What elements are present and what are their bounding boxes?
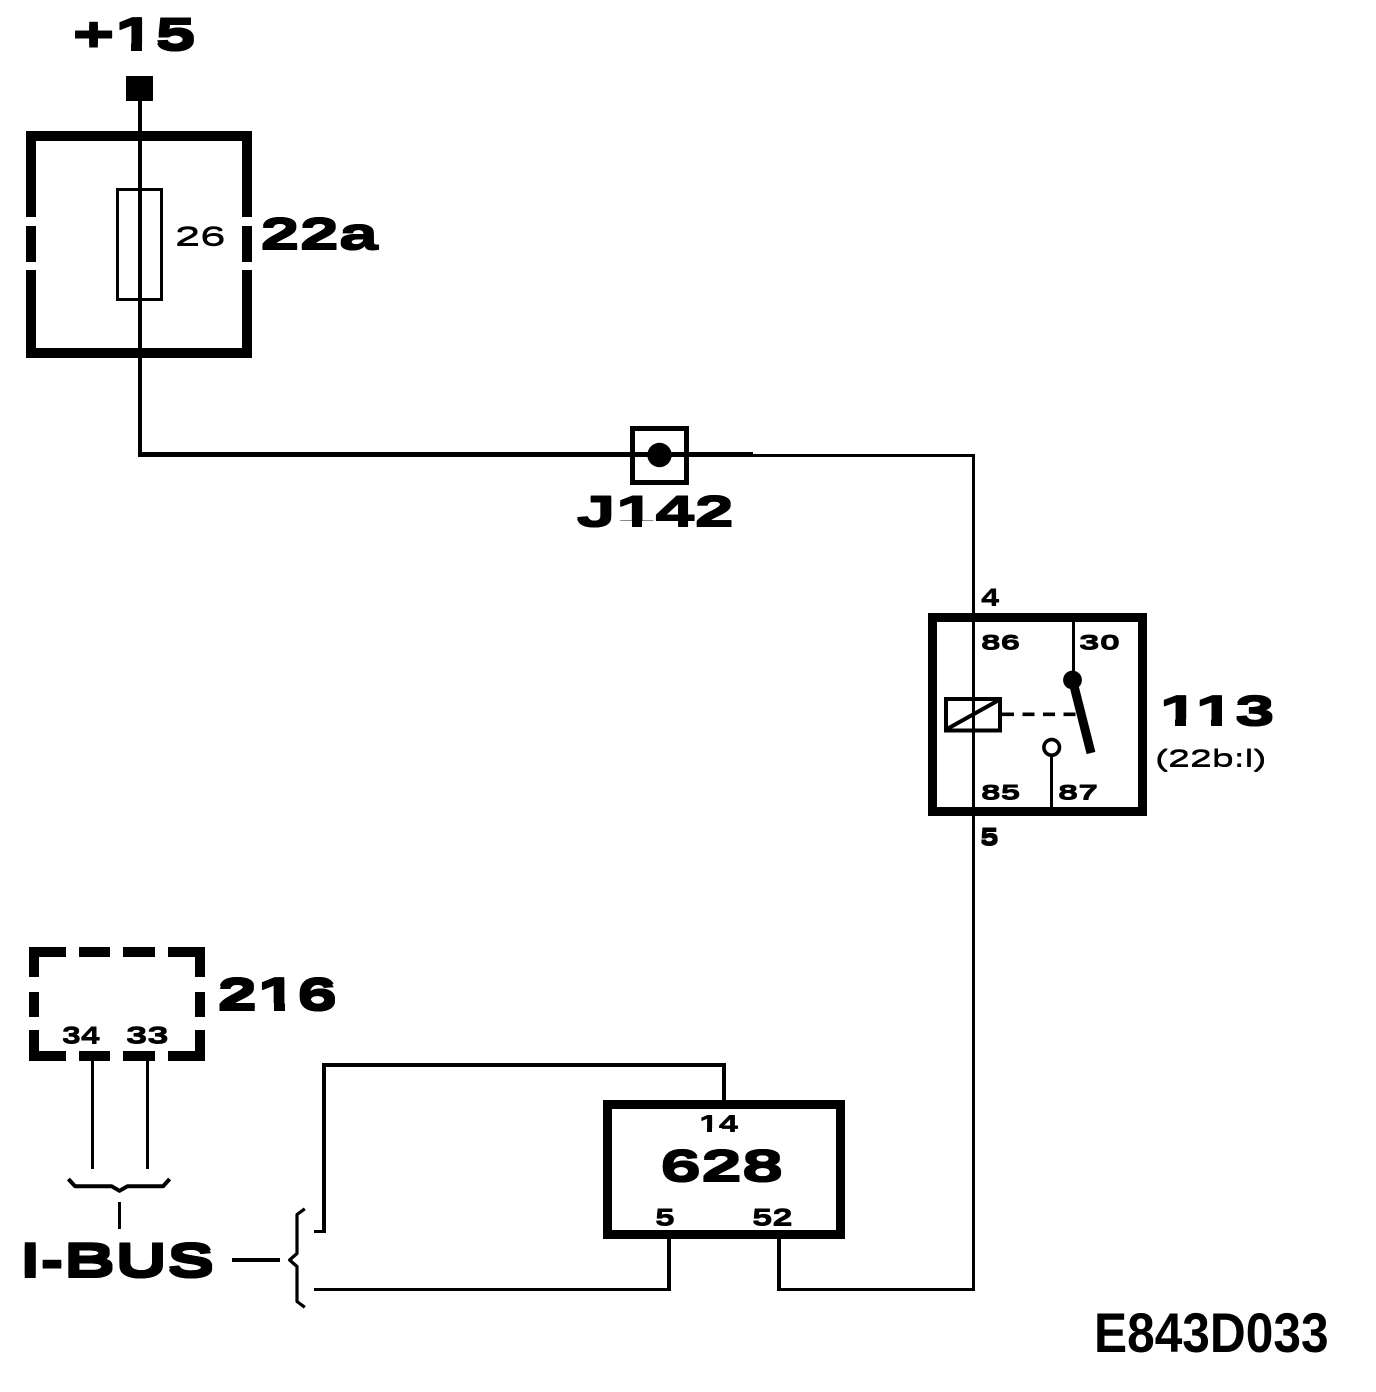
label pin 87 bbox=[1057, 781, 1059, 783]
fuse holder box 22a left border segment 3 bbox=[26, 270, 36, 359]
label pin 14 bbox=[698, 1111, 700, 1113]
connector 216 dashed box bottom dashes bbox=[29, 1051, 66, 1061]
fuse holder box 22a right border segment 3 bbox=[242, 270, 252, 359]
label pin 30 bbox=[1078, 631, 1080, 633]
wire horizontal from J142 to relay drop (thin part) bbox=[753, 454, 975, 457]
relay contact arm bbox=[1073, 680, 1092, 753]
underbrace below connector 216 wires bbox=[68, 1179, 169, 1191]
connector J142 square bbox=[630, 426, 689, 485]
label pin 5 relay bbox=[979, 824, 981, 826]
wire 628 pin 5 down bbox=[667, 1238, 671, 1291]
label pin 5 of 628 bbox=[654, 1205, 656, 1207]
stub from underbrace down to I-BUS bbox=[118, 1202, 121, 1229]
wire I-BUS upper branch horizontal stub bbox=[314, 1230, 326, 1233]
fuse holder box 22a top border bbox=[26, 131, 252, 141]
wire vertical down to relay pin 4 bbox=[972, 454, 976, 616]
wire I-BUS lower branch horizontal to pin 5 bbox=[314, 1288, 671, 1292]
label 113 bbox=[1158, 688, 1160, 690]
connector J142 junction dot bbox=[647, 443, 671, 467]
fuse holder box 22a left border segment 1 bbox=[26, 131, 36, 217]
connector 216 dashed box right dashes bbox=[195, 947, 205, 977]
wire horizontal to 628 pin 14 bbox=[322, 1063, 726, 1066]
wire down into 628 pin 14 bbox=[722, 1065, 726, 1101]
I-BUS big left curly brace bbox=[290, 1209, 305, 1308]
wire horizontal from fuse to J142 (thick part) bbox=[138, 452, 754, 456]
label 22a bbox=[259, 211, 261, 213]
label 26 bbox=[174, 222, 176, 224]
label 628 bbox=[659, 1143, 661, 1145]
wire through relay pins 86-85 and down to bottom joint bbox=[972, 613, 976, 1291]
wire 628 pin 52 down bbox=[777, 1238, 781, 1291]
relay 113 box bbox=[928, 613, 1147, 816]
label 216 bbox=[216, 971, 218, 973]
label pin 4 bbox=[980, 585, 982, 587]
wire pin 34 down bbox=[91, 1061, 94, 1169]
terminal +15 square bbox=[126, 76, 153, 101]
label J142 bbox=[575, 489, 577, 491]
relay coil bbox=[946, 699, 1000, 731]
relay contact pivot dot bbox=[1063, 671, 1082, 690]
relay contact 87 circle bbox=[1044, 740, 1060, 756]
label pin 86 bbox=[980, 631, 982, 633]
fuse holder box 22a left border segment 2 bbox=[26, 226, 36, 262]
wire I-BUS upper branch vertical riser bbox=[322, 1063, 325, 1233]
connector 216 dashed box left dashes bbox=[29, 947, 39, 977]
label E843D033 bbox=[1094, 1306, 1329, 1361]
fuse 26 symbol rectangle bbox=[116, 188, 163, 301]
wire pin 30 to contact pivot bbox=[1072, 617, 1076, 675]
label pin 34 bbox=[61, 1023, 63, 1025]
fuse holder box 22a right border segment 2 bbox=[242, 226, 252, 262]
dash between I-BUS and brace bbox=[232, 1258, 280, 1262]
label +15 bbox=[71, 11, 73, 13]
control module 628 box bbox=[603, 1100, 845, 1239]
wire pin 87 down to relay bottom bbox=[1050, 756, 1054, 808]
fuse holder box 22a bottom border bbox=[26, 348, 252, 358]
label pin 52 bbox=[751, 1205, 753, 1207]
wire from +15 down through fuse box bbox=[138, 101, 142, 455]
wire from pin 52 right to relay drop bbox=[777, 1288, 975, 1292]
label pin 33 bbox=[125, 1023, 127, 1025]
connector 216 dashed box top dashes bbox=[29, 947, 66, 957]
fuse holder box 22a right border segment 1 bbox=[242, 131, 252, 217]
label (22b:l) bbox=[1154, 746, 1156, 748]
label I-BUS bbox=[19, 1234, 21, 1236]
label pin 85 bbox=[980, 781, 982, 783]
wire pin 33 down bbox=[146, 1061, 149, 1169]
relay dashed actuator line bbox=[1002, 712, 1077, 716]
